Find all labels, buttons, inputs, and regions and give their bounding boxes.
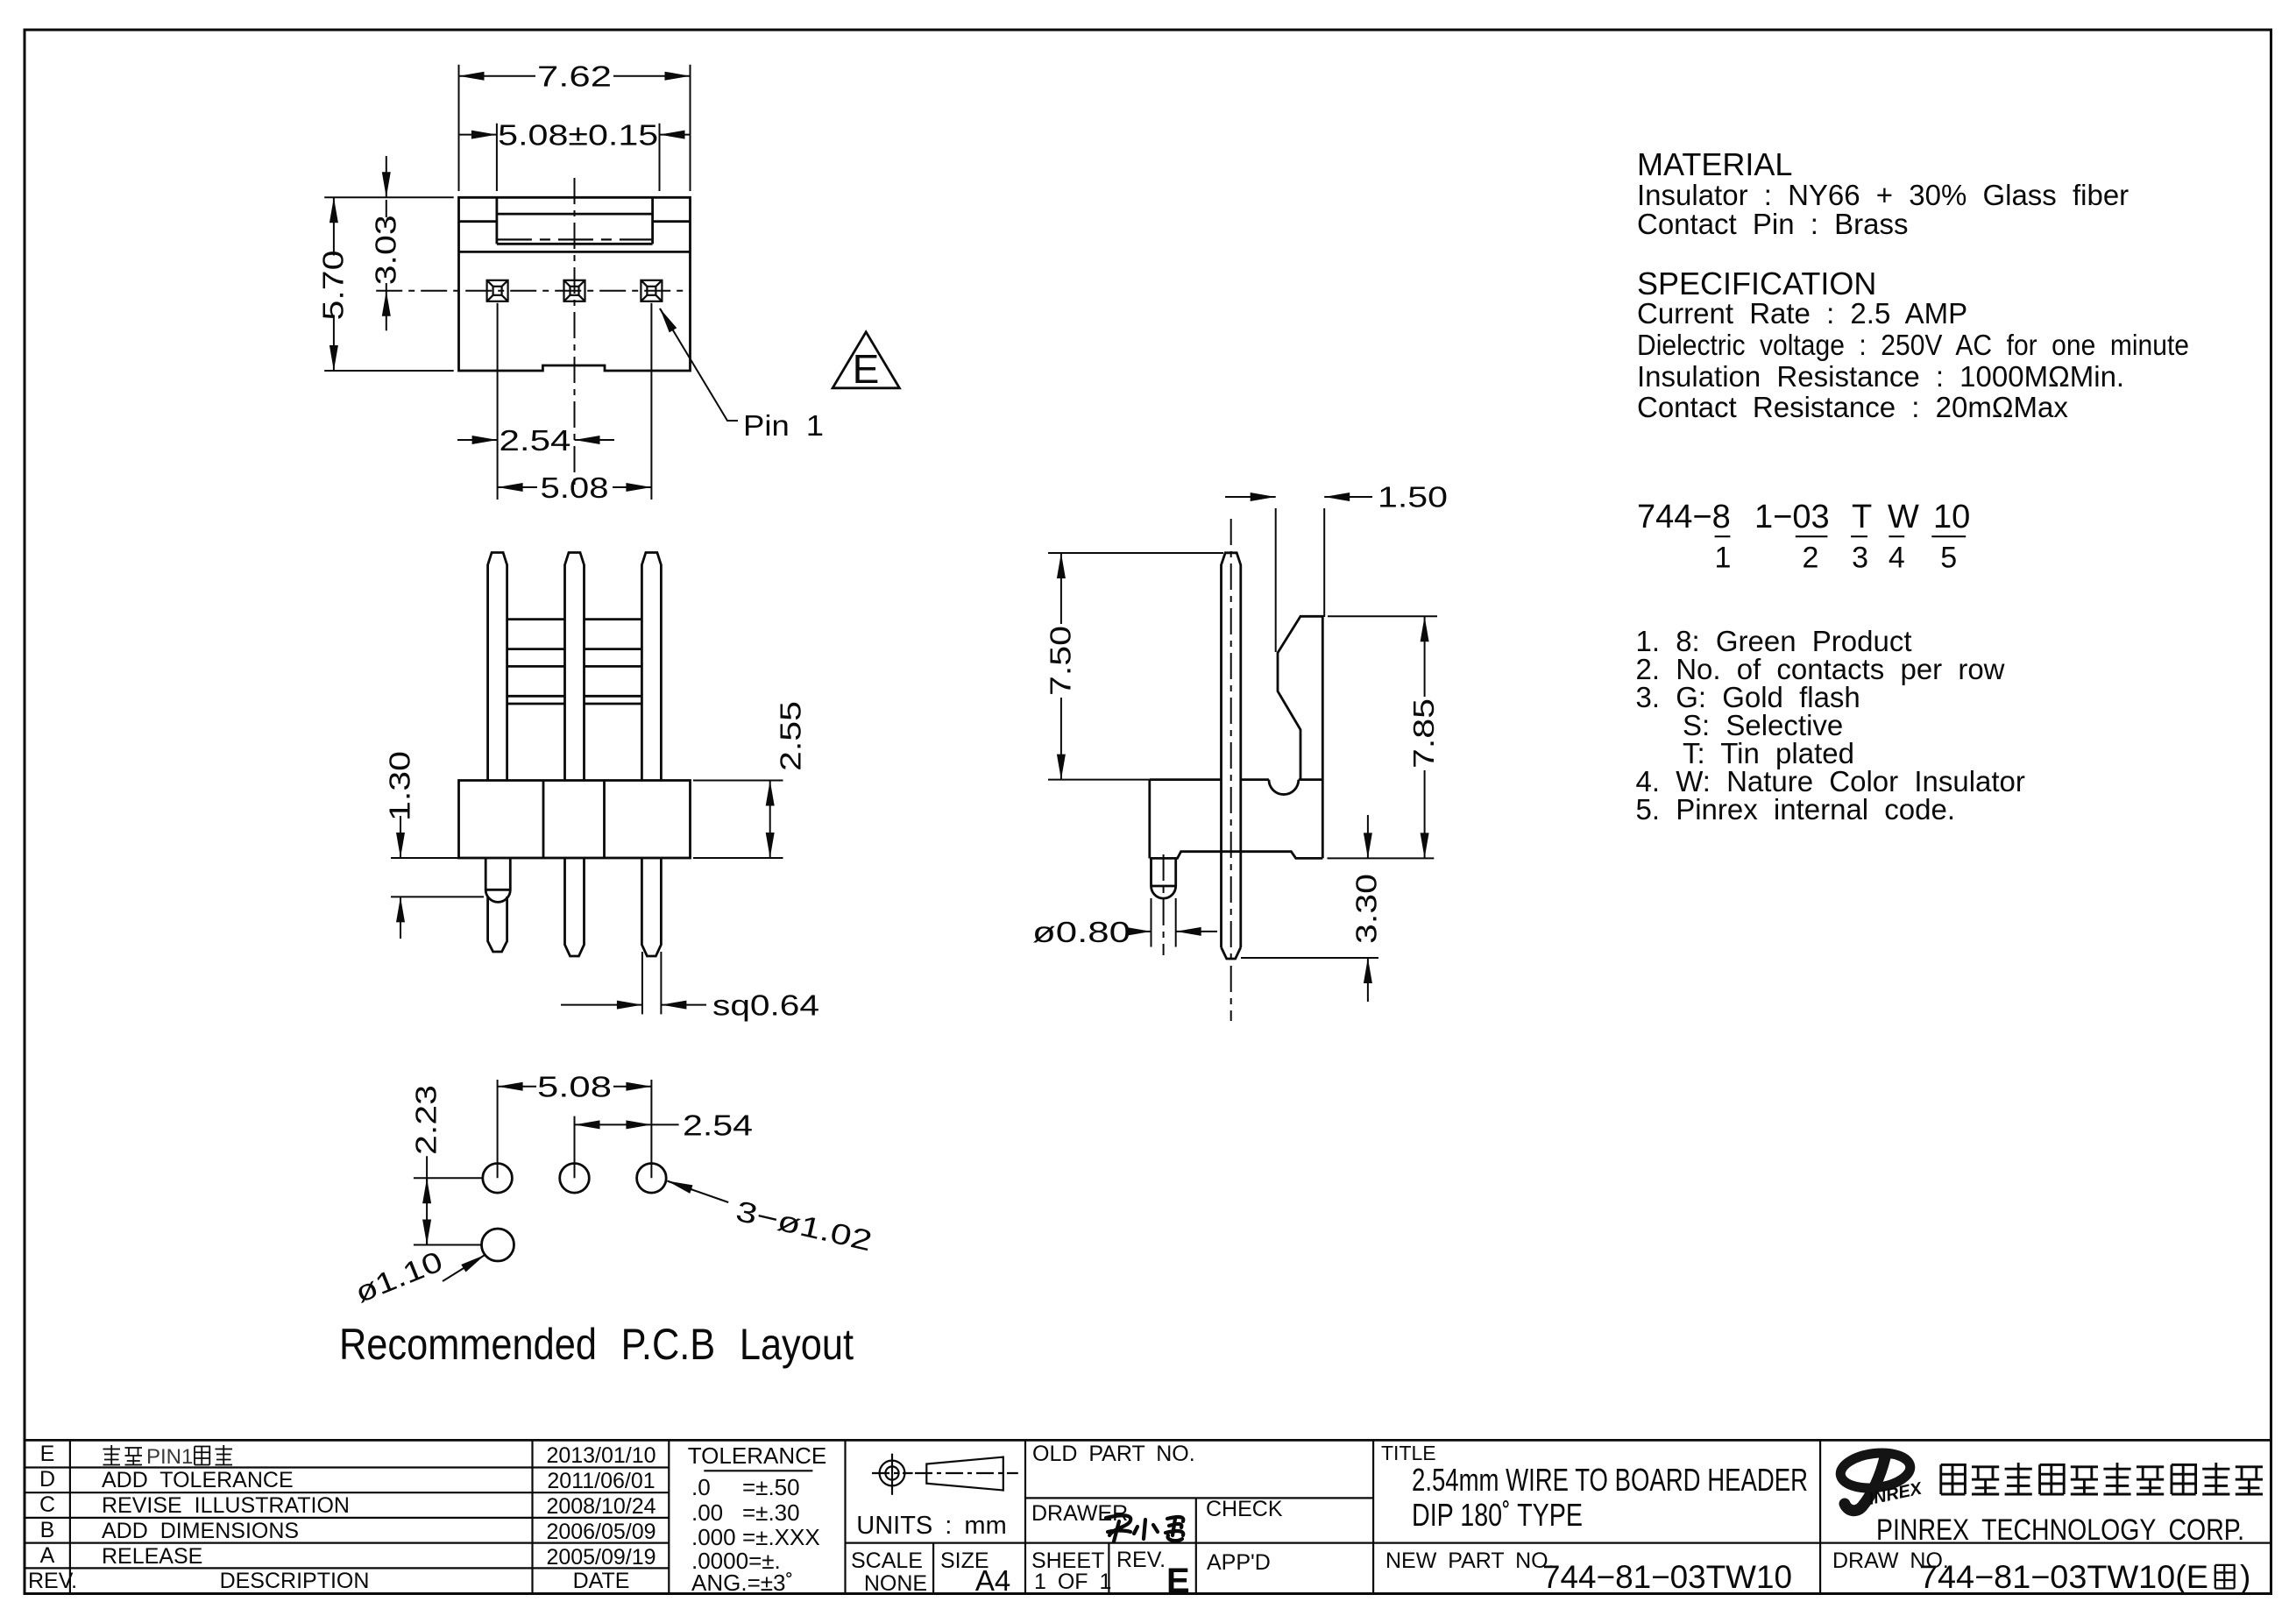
horizontal pin centerline: [376, 290, 690, 292]
slot right wall: [651, 197, 654, 244]
body outline: [459, 197, 691, 371]
pin 3 upper body: [488, 553, 507, 781]
leader 3-phi1.02: [668, 1181, 729, 1202]
pin 1 upper body: [641, 553, 661, 781]
svg-text:5.08: 5.08: [537, 1071, 612, 1103]
svg-text:C: C: [39, 1492, 55, 1517]
full row line under B / title bottom: [25, 1541, 2271, 1543]
company cell left line: [1819, 1440, 1821, 1593]
pin 1 leg: [641, 858, 661, 956]
dim 7.85 line with arrows: [1424, 616, 1426, 697]
dim 1.50 arrows: [1225, 496, 1276, 498]
part code position numbers: [1715, 542, 1958, 575]
leader phi1.10: [443, 1255, 485, 1281]
svg-text:DRAWER: DRAWER: [1031, 1501, 1128, 1526]
vertical centerline: [574, 178, 576, 491]
ledge line left: [459, 220, 497, 223]
dim 2.54 outside arrows: [457, 439, 498, 441]
drawer signature 尹小姜: [1106, 1515, 1183, 1541]
pcb dim 5.08 line with arrows: [498, 1086, 536, 1088]
title cell left line: [1372, 1440, 1374, 1593]
dim 7.50 extension lines: [1048, 553, 1223, 780]
third angle projection symbol cone: [915, 1457, 1018, 1491]
lower shelf line: [459, 251, 691, 253]
svg-text:NEW PART NO.: NEW PART NO.: [1385, 1549, 1555, 1573]
pin bottom tip: [1222, 947, 1241, 959]
svg-text:REV.: REV.: [1116, 1548, 1166, 1572]
tie bar line 3: [507, 665, 642, 668]
svg-text:=±.50: =±.50: [742, 1474, 800, 1500]
slot left wall: [496, 197, 499, 244]
svg-text:DIP 180˚ TYPE: DIP 180˚ TYPE: [1412, 1497, 1583, 1533]
revision table row lines: [25, 1468, 669, 1569]
svg-text:APP'D: APP'D: [1207, 1550, 1271, 1575]
svg-text:Contact Resistance : 20mΩMax: Contact Resistance : 20mΩMax: [1637, 391, 2068, 423]
tie bar line 5: [507, 703, 642, 705]
dim sq0.64 extension lines: [642, 952, 662, 1014]
svg-text:.0: .0: [691, 1474, 711, 1500]
company name CJK 頻鋭科技股份有限公司: [1941, 1463, 2263, 1494]
svg-text:5.08: 5.08: [541, 471, 609, 504]
svg-text:Current Rate : 2.5 AMP: Current Rate : 2.5 AMP: [1637, 297, 1967, 330]
svg-text:=±.30: =±.30: [742, 1499, 800, 1526]
rev appd and drawer check divider: [1195, 1498, 1197, 1593]
base bottom edge: [1150, 852, 1323, 859]
svg-text:4: 4: [1889, 542, 1905, 575]
pin1 extension line down: [497, 303, 499, 500]
dim 2.55 extension lines: [693, 781, 783, 859]
standoff peg side: [1152, 858, 1176, 898]
svg-text:2006/05/09: 2006/05/09: [546, 1520, 655, 1544]
dim 7.50 line with arrows: [1060, 553, 1062, 624]
dim 5.70 extension lines: [324, 197, 454, 371]
tie bar line 4: [507, 695, 642, 698]
dim 5.08±0.15 extension lines: [497, 124, 660, 191]
dim 2.55 line with arrows: [769, 781, 771, 859]
title block top line: [25, 1439, 2271, 1442]
svg-text:RELEASE: RELEASE: [102, 1544, 202, 1569]
svg-text:5. Pinrex internal code.: 5. Pinrex internal code.: [1636, 793, 1956, 826]
svg-text:1−03: 1−03: [1754, 499, 1830, 535]
svg-text:10: 10: [1933, 499, 1970, 535]
svg-text:Contact Pin : Brass: Contact Pin : Brass: [1637, 208, 1908, 240]
base top arc notch: [1269, 780, 1299, 795]
pcb dim 2.54 tail and text: [651, 1123, 678, 1125]
svg-text:E: E: [40, 1442, 55, 1466]
svg-text:B: B: [40, 1518, 55, 1542]
svg-text:E: E: [1166, 1562, 1190, 1600]
svg-text:PIN1: PIN1: [146, 1445, 193, 1469]
svg-text:REVISE ILLUSTRATION: REVISE ILLUSTRATION: [102, 1493, 350, 1518]
svg-text:sq0.64: sq0.64: [712, 989, 819, 1022]
pin bottom extension line: [1241, 957, 1378, 959]
svg-text:2.54: 2.54: [683, 1109, 753, 1141]
svg-text:): ): [2240, 1559, 2250, 1595]
pcb dim 2.54 extension line: [574, 1116, 576, 1179]
base left edge: [1148, 780, 1151, 859]
svg-text:W: W: [1888, 499, 1919, 535]
pin 2 leg: [565, 858, 585, 956]
svg-text:744−81−03TW10: 744−81−03TW10: [1542, 1559, 1792, 1595]
svg-text:5.08±0.15: 5.08±0.15: [498, 119, 658, 152]
hole peg phi1.10: [482, 1229, 514, 1261]
svg-text:2013/01/10: 2013/01/10: [546, 1443, 655, 1468]
dim sq0.64 arrows: [561, 1004, 642, 1006]
ledge line right: [653, 220, 691, 223]
dim 3.03 line stubs: [386, 200, 387, 291]
third angle projection symbol circle: [872, 1454, 913, 1495]
svg-text:2008/10/24: 2008/10/24: [546, 1494, 655, 1519]
svg-text:PINREX TECHNOLOGY CORP.: PINREX TECHNOLOGY CORP.: [1876, 1513, 2244, 1547]
svg-text:E: E: [853, 346, 880, 392]
slot dashed mid line: [497, 238, 653, 240]
svg-text:ø0.80: ø0.80: [1032, 916, 1130, 948]
svg-text:REV.: REV.: [28, 1569, 77, 1593]
dim 5.08 line with arrows: [498, 486, 537, 488]
svg-text:2005/09/19: 2005/09/19: [546, 1545, 655, 1570]
standoff peg front: [485, 858, 510, 902]
svg-text:TOLERANCE: TOLERANCE: [688, 1442, 826, 1469]
latch wall profile: [1278, 616, 1322, 858]
svg-text:Insulator : NY66 + 30% Glass f: Insulator : NY66 + 30% Glass fiber: [1637, 179, 2129, 211]
peg extension lines: [1152, 898, 1176, 947]
svg-text:1.30: 1.30: [384, 751, 416, 821]
svg-text:Dielectric voltage : 250V AC f: Dielectric voltage : 250V AC for one min…: [1637, 329, 2189, 361]
svg-text:744−8: 744−8: [1637, 499, 1731, 535]
svg-text:ANG.=±3˚: ANG.=±3˚: [691, 1570, 793, 1596]
pin 1 square: [641, 280, 662, 301]
dim phi0.80 arrows: [1137, 931, 1152, 932]
tolerance lines: [691, 1474, 820, 1596]
svg-text:Insulation Resistance : 1000MΩ: Insulation Resistance : 1000MΩMin.: [1637, 360, 2124, 393]
tolerance underline: [704, 1470, 812, 1471]
revision letters column: [39, 1442, 55, 1568]
svg-text:Pin 1: Pin 1: [743, 409, 824, 442]
svg-text:3: 3: [1852, 542, 1868, 575]
E triangle symbol: [833, 332, 899, 388]
svg-text:2.23: 2.23: [410, 1085, 443, 1155]
base divider left: [542, 781, 545, 859]
pin 2 square: [564, 280, 585, 301]
slot top line: [497, 213, 653, 216]
svg-text:2.54mm WIRE TO BOARD HEADER: 2.54mm WIRE TO BOARD HEADER: [1412, 1462, 1808, 1498]
pin centerline: [1230, 519, 1232, 1021]
base top edge segments: [1150, 778, 1323, 781]
svg-text:D: D: [39, 1467, 55, 1492]
base divider right: [603, 781, 606, 859]
dim 3.03 outside arrows: [386, 156, 387, 197]
svg-text:5.70: 5.70: [317, 251, 350, 321]
draw no ban glyph: [2215, 1565, 2235, 1589]
svg-text:2: 2: [1803, 542, 1819, 575]
pin 1 leader line: [660, 308, 738, 421]
revision table column lines: [70, 1440, 669, 1593]
svg-text:2.55: 2.55: [775, 701, 807, 771]
svg-text:1: 1: [1715, 542, 1732, 575]
tolerance / symbol column lines: [846, 1440, 1026, 1593]
svg-text:OLD PART NO.: OLD PART NO.: [1032, 1442, 1195, 1466]
dim 1.30 arrows: [400, 816, 401, 858]
svg-text:MATERIAL: MATERIAL: [1637, 146, 1792, 182]
svg-text:DATE: DATE: [573, 1569, 630, 1593]
svg-text:3.03: 3.03: [369, 215, 401, 285]
svg-text:SCALE: SCALE: [851, 1549, 923, 1573]
pinrex logo script P: [1839, 1449, 1912, 1511]
old part no cell bottom: [1025, 1497, 1373, 1499]
hole pin3: [637, 1164, 667, 1194]
pin3 extension line down: [650, 303, 652, 500]
dim 1.50 extension lines: [1276, 508, 1325, 652]
svg-text:T: T: [1852, 499, 1872, 535]
svg-text:7.50: 7.50: [1045, 626, 1077, 696]
dim 5.70 line with arrows: [333, 197, 335, 255]
dim 1.30 extension lines: [391, 858, 484, 897]
pin side profile: [1222, 553, 1241, 947]
peg centerline: [1163, 854, 1165, 955]
svg-text:3.30: 3.30: [1350, 874, 1383, 944]
svg-text:UNITS : mm: UNITS : mm: [856, 1512, 1007, 1540]
svg-text:DESCRIPTION: DESCRIPTION: [220, 1569, 370, 1593]
svg-text:744−81−03TW10(E: 744−81−03TW10(E: [1919, 1559, 2208, 1595]
svg-text:ADD DIMENSIONS: ADD DIMENSIONS: [102, 1519, 299, 1543]
dim 5.08±0.15 arrows: [459, 134, 497, 136]
svg-text:7.62: 7.62: [537, 60, 612, 93]
pcb dim 5.08 extension lines: [498, 1080, 652, 1178]
pin 2 upper body: [565, 553, 585, 781]
hole pin1: [483, 1164, 513, 1194]
base block: [459, 781, 691, 859]
pcb row extension line: [414, 1177, 483, 1179]
svg-text:Recommended P.C.B Layout: Recommended P.C.B Layout: [339, 1320, 854, 1369]
revision E description CJK 标示PIN1位置: [103, 1445, 233, 1469]
dim 2.23 line with arrows: [426, 1156, 428, 1244]
dim 7.85 extension lines: [1328, 616, 1438, 858]
slot bottom line: [497, 243, 653, 245]
svg-text:.00: .00: [691, 1499, 723, 1526]
tie bar line 2: [507, 648, 642, 650]
pin 3 leg below peg: [488, 897, 507, 952]
svg-text:2.54: 2.54: [500, 424, 571, 457]
dim 7.62 line with arrows: [459, 75, 536, 77]
revision dates: [546, 1443, 655, 1570]
svg-text:NONE: NONE: [864, 1571, 927, 1596]
pcb peg extension line: [414, 1244, 482, 1246]
sheet rev divider: [1108, 1543, 1109, 1594]
dim 7.62 extension lines: [459, 65, 691, 191]
pcb dim 2.54 line with arrows: [575, 1123, 652, 1125]
svg-text:2011/06/01: 2011/06/01: [547, 1469, 655, 1493]
svg-text:.000: .000: [691, 1524, 736, 1550]
svg-text:=±.XXX: =±.XXX: [742, 1524, 820, 1550]
dim 3.30 arrows: [1367, 815, 1369, 858]
pin 3 square: [487, 280, 508, 301]
svg-text:1 OF 1: 1 OF 1: [1034, 1570, 1111, 1594]
scale size divider: [932, 1543, 934, 1594]
svg-text:7.85: 7.85: [1407, 698, 1440, 769]
hole pin2: [560, 1164, 590, 1194]
svg-text:1.50: 1.50: [1378, 481, 1448, 514]
tie bar line 1: [507, 618, 642, 620]
svg-text:SPECIFICATION: SPECIFICATION: [1637, 266, 1876, 301]
part code underlines: [1715, 535, 1966, 537]
svg-text:5: 5: [1940, 542, 1957, 575]
svg-text:CHECK: CHECK: [1206, 1497, 1283, 1521]
svg-text:A: A: [40, 1543, 55, 1568]
svg-text:ADD TOLERANCE: ADD TOLERANCE: [102, 1468, 294, 1492]
svg-text:A4: A4: [975, 1564, 1010, 1597]
